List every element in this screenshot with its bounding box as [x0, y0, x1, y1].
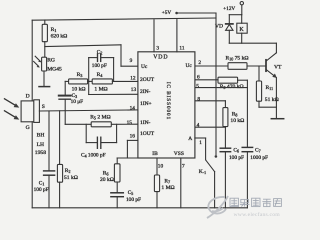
svg-text:1IN+: 1IN+: [140, 101, 152, 107]
resistor R4 1M: [88, 72, 138, 92]
svg-text:VSS: VSS: [174, 151, 184, 157]
svg-text:R4: R4: [97, 72, 103, 78]
resistor R5 2M feedback: [90, 115, 111, 127]
svg-text:R7: R7: [164, 178, 170, 184]
node +12V terminal: [223, 2, 243, 15]
resistor R10 75k: [226, 55, 249, 69]
node +5V supply arrow: [162, 10, 216, 16]
svg-text:G: G: [26, 125, 30, 131]
switch K-1 with pin1 stub: [195, 138, 217, 208]
ground (VT emitter): [271, 118, 283, 120]
resistor R9 470k: [218, 77, 247, 90]
watermark logo: [207, 196, 228, 218]
wire R1 bottom to pin9 Uc: [45, 45, 138, 66]
svg-text:IB: IB: [152, 151, 158, 157]
wire pin15 line: [65, 120, 138, 126]
svg-text:www.elecfans.com: www.elecfans.com: [234, 211, 281, 218]
wire pin13 riser from R3/R4 junction: [89, 81, 138, 94]
resistor R1 620k: [42, 20, 67, 57]
svg-text:C1: C1: [39, 181, 45, 187]
svg-text:2OUT: 2OUT: [140, 77, 155, 83]
svg-text:R2: R2: [65, 168, 71, 174]
capacitor C7 1000pF: [242, 147, 268, 207]
svg-text:11: 11: [179, 45, 184, 51]
svg-text:VDD: VDD: [153, 54, 168, 60]
watermark text: [230, 198, 281, 206]
svg-text:R3: R3: [77, 72, 83, 78]
wire pin3 riser: [154, 20, 159, 52]
diode VD: [215, 15, 233, 44]
svg-text:R11: R11: [266, 85, 274, 91]
svg-text:A: A: [188, 136, 192, 142]
resistor R7 1M on IB pin10: [154, 158, 174, 208]
svg-text:R10 75 kΩ: R10 75 kΩ: [226, 55, 249, 61]
resistor R11 51k base-emitter: [256, 66, 278, 107]
svg-text:MG45: MG45: [47, 66, 62, 72]
wire pin8: [195, 96, 226, 107]
svg-text:51 kΩ: 51 kΩ: [64, 175, 78, 181]
svg-text:1 MΩ: 1 MΩ: [94, 87, 107, 93]
svg-text:51 kΩ: 51 kΩ: [265, 97, 279, 103]
svg-text:13: 13: [131, 87, 137, 93]
svg-text:LH: LH: [37, 142, 44, 148]
wire left rail to detector D: [31, 20, 33, 101]
wire pin7 VSS to rail: [181, 158, 185, 208]
svg-text:100 pF: 100 pF: [92, 63, 107, 69]
svg-text:C7: C7: [255, 148, 261, 154]
capacitor C5 100pF: [111, 190, 141, 208]
svg-text:1: 1: [199, 140, 202, 146]
wire C7 column from R9: [246, 80, 248, 147]
svg-text:2IN-: 2IN-: [140, 89, 151, 95]
svg-text:1OUT: 1OUT: [140, 131, 155, 137]
wire pin14 line from S: [39, 105, 137, 111]
svg-text:10 μF: 10 μF: [71, 99, 84, 105]
wire detector G to bottom rail: [31, 122, 33, 208]
wire relay top: [229, 14, 241, 16]
wire relay bottom to VT collector: [229, 42, 276, 44]
svg-text:10 kΩ: 10 kΩ: [230, 118, 244, 124]
photoresistor RG MG45: [34, 56, 62, 86]
ground (RG): [39, 86, 50, 88]
svg-text:2: 2: [198, 60, 201, 66]
svg-text:K: K: [239, 27, 244, 33]
svg-text:K-1: K-1: [199, 169, 206, 175]
wire pin5: [195, 83, 248, 89]
capacitor C6 100pF: [220, 148, 244, 208]
svg-text:C5: C5: [128, 190, 134, 196]
capacitor C2 100pF feedback loop: [89, 49, 114, 81]
svg-text:3: 3: [156, 45, 159, 51]
svg-text:D: D: [26, 93, 30, 99]
resistor R6 20k: [100, 164, 120, 193]
transistor VT: [266, 43, 282, 118]
pyro detector B1 BH LH1958: [5, 93, 47, 156]
wire +5V vertical feed to switch contact: [215, 13, 217, 155]
svg-text:1000 pF: 1000 pF: [250, 155, 268, 161]
resistor R3 10k: [65, 72, 87, 92]
svg-text:VT: VT: [274, 64, 282, 70]
capacitor C4 1000pF feedback loop: [81, 124, 117, 158]
svg-text:15: 15: [127, 120, 133, 126]
svg-text:C6: C6: [233, 148, 239, 154]
svg-text:12: 12: [130, 76, 136, 82]
svg-text:Uc: Uc: [186, 63, 193, 69]
svg-text:100 pF: 100 pF: [34, 187, 49, 193]
svg-text:C2: C2: [97, 49, 103, 55]
op-amp IC U1 BISS0001: [138, 52, 195, 158]
wire pin16 to R6: [117, 133, 138, 163]
wire top VDD rail: [32, 18, 216, 20]
svg-text:Uc: Uc: [141, 64, 148, 70]
wire pin6: [195, 74, 218, 80]
relay coil K: [237, 15, 247, 44]
svg-text:1IN-: 1IN-: [140, 120, 151, 126]
resistor R8 10k: [223, 108, 244, 149]
svg-text:100 pF: 100 pF: [126, 197, 141, 203]
svg-text:10 kΩ: 10 kΩ: [72, 86, 86, 92]
resistor R2 51k: [57, 111, 78, 208]
svg-text:9: 9: [130, 58, 133, 64]
capacitor C3 10uF coupling: [59, 81, 83, 124]
svg-text:620 kΩ: 620 kΩ: [51, 34, 68, 40]
svg-text:100 pF: 100 pF: [229, 155, 244, 161]
svg-text:S: S: [42, 104, 45, 110]
svg-text:8: 8: [197, 96, 200, 102]
svg-text:5: 5: [196, 83, 199, 89]
svg-text:RG: RG: [47, 58, 55, 64]
svg-text:1 MΩ: 1 MΩ: [161, 185, 174, 191]
capacitor C1 100pF: [34, 111, 55, 208]
svg-text:IC BISS0001: IC BISS0001: [165, 82, 171, 120]
wire bottom ground rail: [32, 207, 247, 209]
svg-text:10: 10: [158, 164, 164, 170]
svg-text:BH: BH: [37, 133, 45, 139]
wire pin2 output line: [195, 60, 266, 66]
svg-text:R1: R1: [51, 27, 57, 33]
svg-text:1958: 1958: [35, 150, 46, 156]
svg-text:C4 1000 pF: C4 1000 pF: [81, 152, 106, 158]
svg-text:R5 2 MΩ: R5 2 MΩ: [90, 115, 110, 121]
svg-text:+5V: +5V: [162, 10, 172, 16]
svg-text:7: 7: [182, 163, 185, 169]
svg-text:R6: R6: [103, 170, 109, 176]
svg-text:16: 16: [130, 133, 136, 139]
svg-text:VD: VD: [215, 24, 223, 30]
svg-text:20 kΩ: 20 kΩ: [100, 177, 114, 183]
svg-text:+12V: +12V: [223, 6, 235, 12]
wire pin4: [195, 123, 226, 129]
wire pin11 riser: [177, 20, 185, 52]
svg-text:R8: R8: [232, 112, 238, 118]
